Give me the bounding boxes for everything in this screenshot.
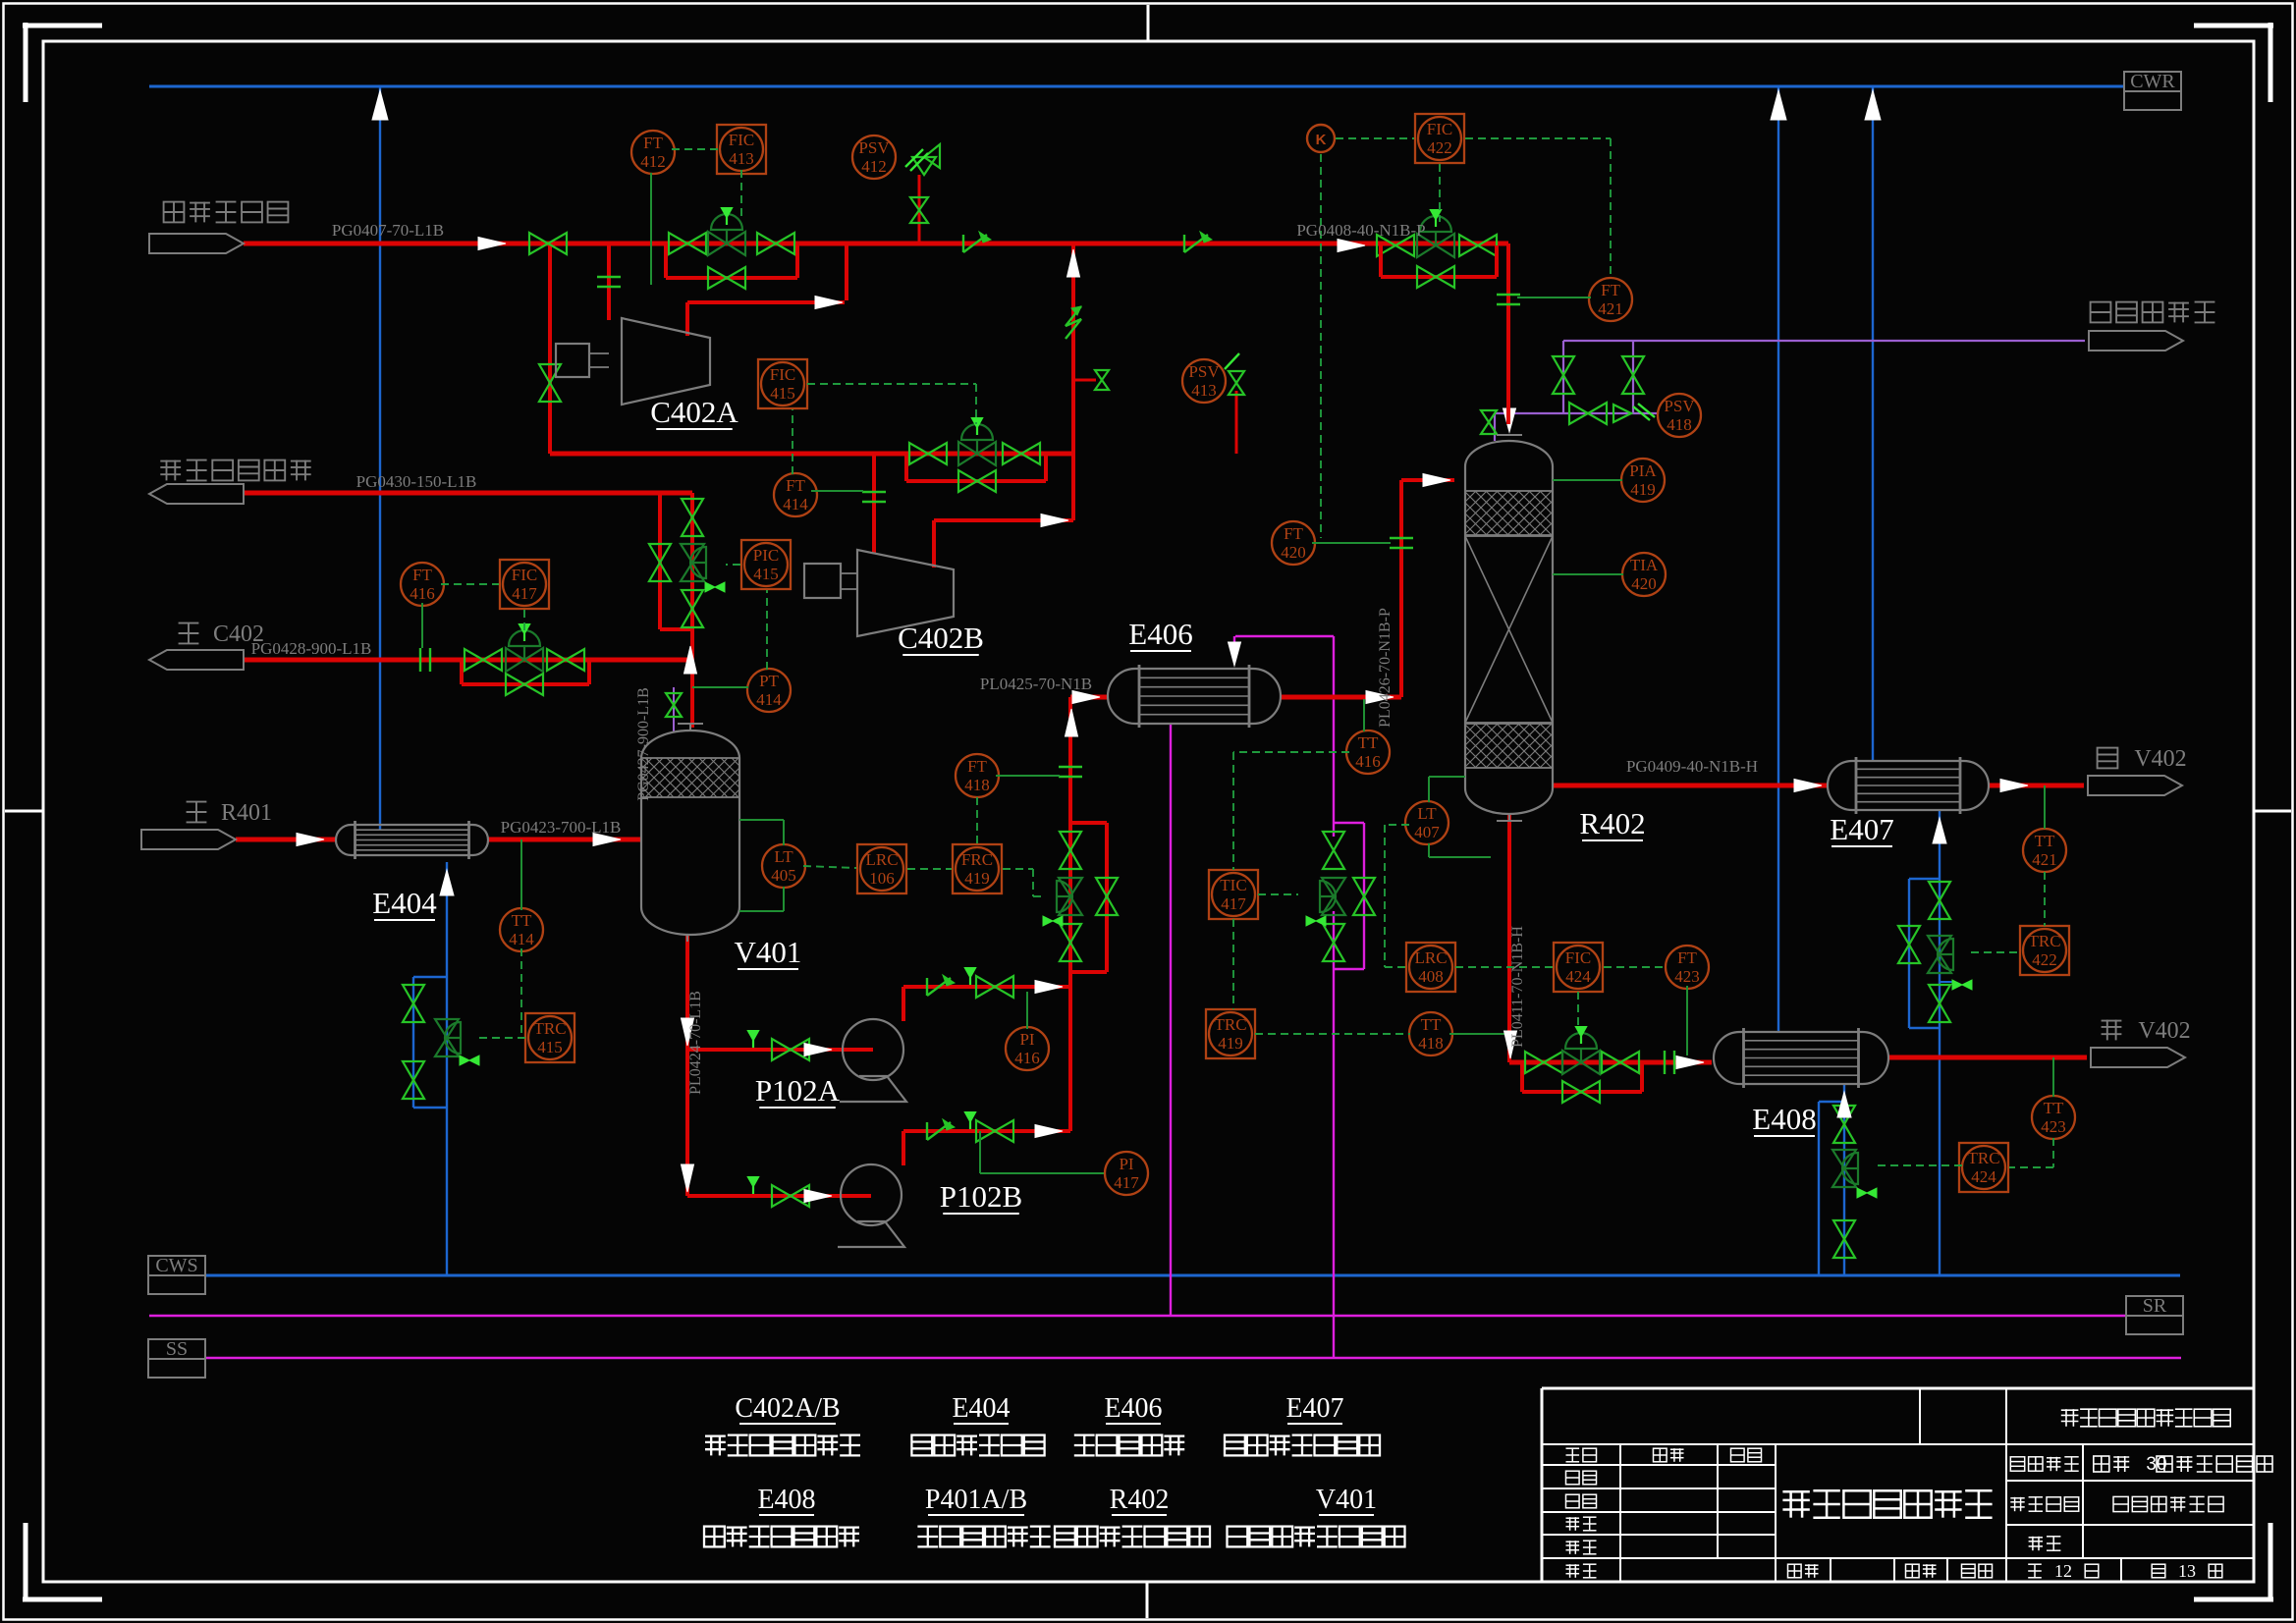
svg-text:TT: TT [2035, 832, 2055, 850]
svg-text:TRC: TRC [2028, 932, 2060, 950]
svg-text:C402A/B: C402A/B [735, 1393, 840, 1424]
svg-text:PT: PT [759, 672, 779, 690]
svg-text:LT: LT [774, 847, 793, 866]
svg-text:413: 413 [1191, 381, 1217, 400]
svg-text:TRC: TRC [533, 1019, 566, 1038]
svg-text:414: 414 [756, 690, 782, 709]
svg-text:P102A: P102A [755, 1073, 841, 1108]
svg-text:418: 418 [964, 776, 990, 794]
svg-text:416: 416 [1014, 1049, 1040, 1067]
svg-text:106: 106 [869, 869, 895, 888]
svg-text:421: 421 [2032, 850, 2057, 869]
svg-text:FIC: FIC [729, 131, 754, 149]
svg-text:V402: V402 [2138, 1018, 2190, 1044]
svg-text:417: 417 [1114, 1173, 1139, 1192]
svg-text:412: 412 [861, 157, 887, 176]
svg-text:PSV: PSV [858, 138, 890, 157]
svg-text:E407: E407 [1830, 812, 1893, 846]
svg-text:P401A/B: P401A/B [925, 1485, 1027, 1515]
svg-text:418: 418 [1418, 1034, 1444, 1053]
svg-text:C402B: C402B [898, 621, 984, 655]
svg-text:PG0408-40-N1B-P: PG0408-40-N1B-P [1296, 221, 1425, 240]
svg-text:407: 407 [1414, 823, 1440, 841]
svg-text:P102B: P102B [940, 1179, 1022, 1214]
svg-text:423: 423 [1674, 967, 1700, 986]
svg-text:FIC: FIC [512, 566, 537, 584]
svg-text:PG0430-150-L1B: PG0430-150-L1B [356, 472, 477, 491]
svg-text:FIC: FIC [770, 365, 795, 384]
svg-text:422: 422 [2032, 950, 2057, 969]
svg-text:V401: V401 [735, 935, 802, 969]
svg-text:FRC: FRC [961, 850, 993, 869]
svg-text:PSV: PSV [1188, 362, 1220, 381]
svg-text:LRC: LRC [865, 850, 898, 869]
svg-text:TIC: TIC [1220, 876, 1246, 894]
svg-text:TRC: TRC [1214, 1015, 1246, 1034]
svg-text:FT: FT [1677, 948, 1697, 967]
svg-text:CWR: CWR [2130, 71, 2175, 92]
svg-text:424: 424 [1565, 967, 1591, 986]
svg-text:E406: E406 [1128, 617, 1192, 651]
svg-text:417: 417 [1221, 894, 1246, 913]
svg-text:424: 424 [1971, 1167, 1996, 1186]
svg-text:FT: FT [786, 476, 805, 495]
svg-text:E408: E408 [1752, 1102, 1816, 1136]
svg-text:PSV: PSV [1664, 397, 1695, 415]
svg-text:E404: E404 [372, 886, 437, 920]
svg-text:419: 419 [1630, 480, 1656, 499]
svg-text:V402: V402 [2134, 746, 2186, 772]
svg-text:420: 420 [1281, 543, 1306, 562]
svg-text:C402A: C402A [650, 395, 738, 429]
svg-text:418: 418 [1667, 415, 1692, 434]
svg-text:E404: E404 [952, 1393, 1010, 1424]
svg-text:E408: E408 [757, 1485, 815, 1515]
svg-text:SR: SR [2143, 1295, 2167, 1317]
svg-text:TT: TT [512, 911, 532, 930]
svg-text:FIC: FIC [1427, 120, 1452, 138]
svg-text:417: 417 [512, 584, 537, 603]
svg-text:E406: E406 [1104, 1393, 1162, 1424]
svg-text:419: 419 [964, 869, 990, 888]
svg-text:415: 415 [770, 384, 795, 403]
svg-text:V401: V401 [1316, 1485, 1377, 1515]
svg-text:415: 415 [537, 1038, 563, 1056]
svg-text:PI: PI [1119, 1155, 1133, 1173]
svg-text:FT: FT [1601, 281, 1620, 299]
svg-text:R402: R402 [1579, 806, 1645, 840]
svg-text:R402: R402 [1110, 1485, 1170, 1515]
svg-text:420: 420 [1631, 574, 1657, 593]
svg-text:415: 415 [753, 565, 779, 583]
svg-text:TT: TT [1358, 733, 1379, 752]
svg-text:PL0411-70-N1B-H: PL0411-70-N1B-H [1509, 926, 1526, 1048]
svg-text:421: 421 [1598, 299, 1623, 318]
svg-text:FT: FT [643, 134, 663, 152]
svg-text:R401: R401 [221, 800, 272, 826]
svg-text:416: 416 [410, 584, 435, 603]
svg-text:13: 13 [2178, 1561, 2196, 1581]
svg-text:TIA: TIA [1630, 556, 1659, 574]
svg-text:PG0423-700-L1B: PG0423-700-L1B [501, 818, 622, 837]
svg-text:PI: PI [1019, 1030, 1034, 1049]
svg-text:414: 414 [783, 495, 808, 514]
svg-text:FT: FT [967, 757, 987, 776]
svg-text:SS: SS [166, 1338, 188, 1360]
svg-text:FT: FT [412, 566, 432, 584]
svg-text:FIC: FIC [1565, 948, 1591, 967]
svg-text:PG0407-70-L1B: PG0407-70-L1B [332, 221, 444, 240]
svg-text:413: 413 [729, 149, 754, 168]
svg-text:FT: FT [1284, 524, 1303, 543]
svg-text:PG0428-900-L1B: PG0428-900-L1B [251, 639, 372, 658]
svg-text:416: 416 [1355, 752, 1381, 771]
svg-text:TT: TT [2044, 1099, 2064, 1117]
svg-text:PL0424-70-L1B: PL0424-70-L1B [687, 991, 704, 1095]
svg-text:K: K [1316, 132, 1327, 148]
svg-text:TRC: TRC [1967, 1149, 1999, 1167]
svg-text:414: 414 [509, 930, 534, 948]
svg-text:LT: LT [1417, 804, 1437, 823]
svg-text:PG0409-40-N1B-H: PG0409-40-N1B-H [1626, 757, 1758, 776]
svg-text:PL0425-70-N1B: PL0425-70-N1B [980, 675, 1092, 693]
svg-text:405: 405 [771, 866, 796, 885]
svg-text:412: 412 [640, 152, 666, 171]
svg-text:LRC: LRC [1414, 948, 1447, 967]
svg-text:422: 422 [1427, 138, 1452, 157]
svg-text:E407: E407 [1285, 1393, 1343, 1424]
svg-text:PIC: PIC [753, 546, 779, 565]
svg-text:12: 12 [2054, 1561, 2072, 1581]
svg-text:PG0427-900-L1B: PG0427-900-L1B [635, 687, 652, 801]
svg-text:419: 419 [1218, 1034, 1243, 1053]
svg-text:408: 408 [1418, 967, 1444, 986]
svg-text:PL0426-70-N1B-P: PL0426-70-N1B-P [1377, 608, 1394, 728]
svg-text:PIA: PIA [1629, 461, 1657, 480]
svg-text:TT: TT [1421, 1015, 1442, 1034]
svg-text:423: 423 [2041, 1117, 2066, 1136]
svg-text:CWS: CWS [155, 1255, 197, 1276]
